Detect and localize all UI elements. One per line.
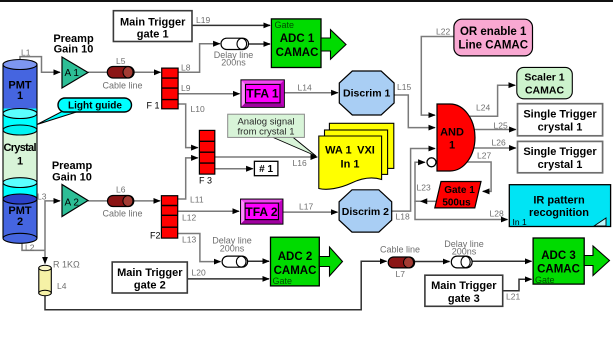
- svg-text:L21: L21: [506, 292, 520, 302]
- wire Gate1 output leftward: [421, 200, 437, 202]
- wire node to resistor R: [44, 250, 46, 263]
- wire L12 F2 to TFA2: [178, 210, 239, 212]
- svg-text:crystal 1: crystal 1: [538, 159, 583, 171]
- wire L26 AND1 to Single Trigger 2: [473, 147, 516, 149]
- wire cable L7 to delay line 3: [415, 261, 450, 263]
- svg-text:Main Trigger: Main Trigger: [117, 267, 183, 279]
- svg-text:L8: L8: [181, 63, 191, 73]
- OR enable 1 Line CAMAC: [454, 19, 533, 56]
- inverted input circle at AND1: [427, 158, 436, 167]
- svg-text:1: 1: [17, 156, 23, 168]
- cable line L7: [388, 257, 414, 268]
- wire F3 to counter #1: [215, 168, 253, 170]
- preamp A1: [62, 57, 88, 88]
- svg-text:Line CAMAC: Line CAMAC: [458, 40, 528, 52]
- svg-text:recognition: recognition: [529, 207, 589, 219]
- crystal Crystal 1: [3, 125, 37, 183]
- PMT 2: [3, 194, 37, 243]
- analog signal callout: [228, 114, 316, 156]
- Single Trigger crystal 1 box A: [518, 104, 603, 136]
- svg-text:L25: L25: [494, 121, 508, 131]
- svg-text:Gate: Gate: [273, 276, 293, 286]
- light guide section 2: [3, 178, 37, 199]
- svg-text:In 1: In 1: [513, 217, 527, 227]
- svg-text:L24: L24: [476, 103, 490, 113]
- svg-text:L3: L3: [37, 192, 47, 202]
- svg-text:Crystal: Crystal: [4, 142, 37, 154]
- svg-text:L7: L7: [396, 269, 406, 279]
- svg-text:from crystal 1: from crystal 1: [237, 127, 294, 138]
- svg-text:L1: L1: [21, 48, 31, 58]
- svg-text:L11: L11: [190, 195, 204, 205]
- svg-text:Scaler 1: Scaler 1: [524, 72, 564, 84]
- svg-text:L6: L6: [116, 185, 126, 195]
- wire L23 feedback riser: [415, 162, 425, 201]
- wire delay line 3 to ADC3: [472, 260, 531, 262]
- wire delay line 1 to ADC1: [249, 43, 271, 45]
- PMT 1: [3, 60, 37, 109]
- svg-text:L15: L15: [397, 82, 411, 92]
- light guide callout bubble: [37, 98, 132, 125]
- svg-text:F 1: F 1: [147, 101, 160, 111]
- svg-text:200ns: 200ns: [221, 58, 246, 68]
- ADC 1 CAMAC: [271, 19, 321, 68]
- svg-text:OR enable 1: OR enable 1: [460, 26, 527, 38]
- wire L21 Main Trigger gate 3 to ADC3 gate: [503, 279, 532, 290]
- svg-text:L20: L20: [192, 268, 206, 278]
- Main Trigger gate 3: [425, 275, 503, 306]
- wire L1 PMT1 to preamp A1: [20, 57, 60, 73]
- svg-text:L28: L28: [490, 209, 504, 219]
- svg-text:Cable line: Cable line: [102, 81, 142, 91]
- wire L24 AND1 to Scaler: [466, 85, 515, 116]
- svg-text:R 1KΩ: R 1KΩ: [53, 260, 80, 270]
- resistor R 1KOhm: [39, 265, 52, 296]
- svg-text:L9: L9: [181, 83, 191, 93]
- svg-text:WA 1 VXI: WA 1 VXI: [325, 145, 375, 157]
- ADC 2 CAMAC: [271, 237, 320, 286]
- svg-text:Gate: Gate: [275, 20, 295, 30]
- svg-text:L22: L22: [436, 27, 450, 37]
- svg-text:L12: L12: [182, 213, 196, 223]
- fan-out F1: [147, 68, 179, 110]
- svg-text:L14: L14: [298, 83, 312, 93]
- svg-text:CAMAC: CAMAC: [276, 47, 319, 59]
- wire L28 Gate1 to IR pattern recognition: [415, 201, 508, 219]
- wire delay line 2 to ADC2: [248, 260, 269, 262]
- wire cable L6 to F2: [134, 200, 160, 202]
- svg-text:1: 1: [17, 90, 23, 102]
- delay line 1: [221, 38, 249, 49]
- wire L20 Main Trigger gate 2 to ADC2 gate: [187, 278, 269, 280]
- cable line L6: [108, 196, 134, 207]
- svg-text:gate 3: gate 3: [448, 293, 480, 305]
- svg-text:Gain 10: Gain 10: [54, 44, 94, 56]
- svg-text:Cable line: Cable line: [380, 245, 420, 255]
- preamp label 2: [52, 160, 93, 183]
- wire L9 F1 to TFA1: [178, 93, 239, 95]
- wire L16 F3 to WA1 VXI: [215, 156, 317, 158]
- svg-text:Discrim 1: Discrim 1: [343, 88, 390, 100]
- ADC 3 CAMAC: [533, 238, 584, 285]
- ADC3 output arrow: [584, 246, 609, 276]
- svg-text:PMT: PMT: [8, 205, 32, 217]
- fan-out F3: [199, 130, 215, 185]
- WA 1 VXI module stack: [319, 123, 394, 189]
- counter box #1: [254, 161, 278, 175]
- svg-text:Single Trigger: Single Trigger: [523, 109, 597, 121]
- wire L19 Main Trigger gate 1 to ADC1 gate: [192, 24, 270, 26]
- delay line 3: [451, 256, 472, 268]
- svg-text:L17: L17: [299, 202, 313, 212]
- svg-text:L26: L26: [492, 138, 506, 148]
- preamp label 1: [53, 33, 94, 56]
- svg-text:A 1: A 1: [65, 68, 80, 79]
- wire L14 TFA1 to Discrim1: [284, 92, 338, 94]
- detector stack outline: [3, 65, 37, 239]
- cable line L5: [107, 67, 134, 79]
- svg-text:F2: F2: [150, 231, 161, 241]
- wire L15 Discrim1 to AND1 input 2: [394, 95, 435, 128]
- wire L17 TFA2 to Discrim2: [283, 211, 338, 213]
- svg-text:ADC 2: ADC 2: [278, 251, 313, 263]
- wire L10 F1 to F3 input 1: [178, 104, 198, 148]
- svg-text:# 1: # 1: [259, 164, 273, 175]
- svg-text:Light guide: Light guide: [68, 101, 122, 112]
- svg-text:L13: L13: [182, 235, 196, 245]
- svg-text:2: 2: [17, 216, 23, 228]
- svg-text:200ns: 200ns: [220, 244, 245, 254]
- svg-text:L10: L10: [191, 104, 205, 114]
- svg-text:L19: L19: [196, 15, 210, 25]
- svg-text:TFA 2: TFA 2: [245, 205, 278, 219]
- svg-text:L2: L2: [25, 243, 35, 253]
- svg-text:gate 2: gate 2: [134, 280, 166, 292]
- wire L8 F1 to delay line 1: [178, 44, 220, 73]
- svg-text:Preamp: Preamp: [52, 160, 93, 172]
- discriminator Discrim 2: [339, 190, 392, 232]
- delay line 2: [222, 256, 248, 267]
- svg-text:Gain 10: Gain 10: [52, 171, 92, 183]
- wire L11 F2 to F3 input 2: [178, 158, 198, 199]
- svg-text:L4: L4: [57, 281, 67, 291]
- Single Trigger crystal 1 box B: [518, 141, 603, 172]
- svg-text:Cable line: Cable line: [102, 209, 142, 219]
- Main Trigger gate 1: [113, 11, 192, 42]
- TFA 1: [241, 80, 284, 107]
- svg-text:AND: AND: [440, 127, 464, 139]
- svg-text:gate 1: gate 1: [137, 29, 169, 41]
- svg-text:ADC 3: ADC 3: [541, 250, 576, 262]
- svg-text:CAMAC: CAMAC: [525, 85, 564, 97]
- IR pattern recognition: [509, 185, 610, 227]
- svg-text:1: 1: [449, 140, 455, 152]
- svg-text:CAMAC: CAMAC: [537, 264, 580, 276]
- wire A1 to cable L5: [88, 71, 108, 73]
- ADC2 output arrow: [319, 247, 342, 276]
- svg-text:Gate: Gate: [535, 275, 555, 285]
- wire resistor to cable L7 bottom run: [45, 261, 387, 309]
- wire L25 AND1 to Single Trigger 1: [473, 129, 516, 131]
- wire L22 OR enable to AND1 input 1: [421, 37, 454, 116]
- fan-out F2: [150, 196, 178, 241]
- svg-text:crystal 1: crystal 1: [538, 122, 583, 134]
- svg-text:ADC 1: ADC 1: [280, 33, 315, 45]
- wire L18 Discrim2 to AND1 input 3: [392, 149, 435, 212]
- Scaler 1 CAMAC: [517, 67, 573, 98]
- wire L3 node to preamp A2: [45, 201, 60, 251]
- ADC1 output arrow: [321, 30, 346, 60]
- gate generator Gate 1 500us: [435, 182, 481, 209]
- preamp A2: [62, 185, 88, 217]
- wire cable L5 to fan-in F1: [134, 71, 160, 73]
- svg-text:Main Trigger: Main Trigger: [120, 16, 186, 28]
- svg-text:Discrim 2: Discrim 2: [342, 206, 389, 218]
- svg-text:200ns: 200ns: [452, 247, 477, 257]
- svg-text:A 2: A 2: [65, 198, 80, 209]
- svg-text:L27: L27: [477, 151, 491, 161]
- svg-text:L23: L23: [417, 183, 431, 193]
- svg-text:In 1: In 1: [341, 159, 360, 171]
- TFA 2: [241, 199, 283, 224]
- AND gate AND 1: [437, 104, 475, 171]
- svg-text:500us: 500us: [442, 197, 471, 208]
- wire A2 to cable L6: [88, 200, 108, 202]
- svg-text:Gate 1: Gate 1: [444, 185, 475, 196]
- wire L27 AND1 to Gate1: [463, 162, 491, 191]
- discriminator Discrim 1: [339, 71, 394, 115]
- svg-text:F 3: F 3: [199, 176, 212, 186]
- svg-text:L16: L16: [293, 158, 307, 168]
- svg-text:IR pattern: IR pattern: [533, 195, 585, 207]
- Main Trigger gate 2: [112, 262, 187, 293]
- svg-text:L5: L5: [116, 56, 126, 66]
- svg-text:L18: L18: [396, 212, 410, 222]
- svg-text:Main Trigger: Main Trigger: [431, 280, 497, 292]
- wire L13 F2 to delay line 2: [178, 234, 221, 262]
- svg-text:Single Trigger: Single Trigger: [523, 146, 597, 158]
- light guide section 1: [3, 109, 37, 131]
- svg-text:TFA 1: TFA 1: [246, 87, 279, 101]
- wire L2 PMT2 to node: [22, 243, 45, 250]
